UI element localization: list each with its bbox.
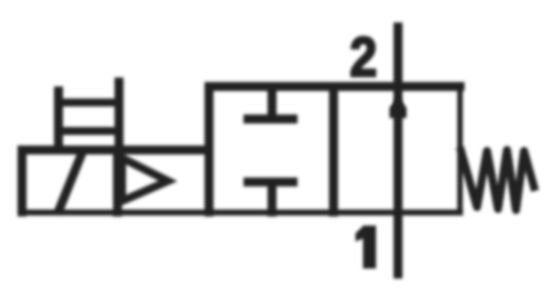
svg-text:2: 2 [350,26,377,89]
